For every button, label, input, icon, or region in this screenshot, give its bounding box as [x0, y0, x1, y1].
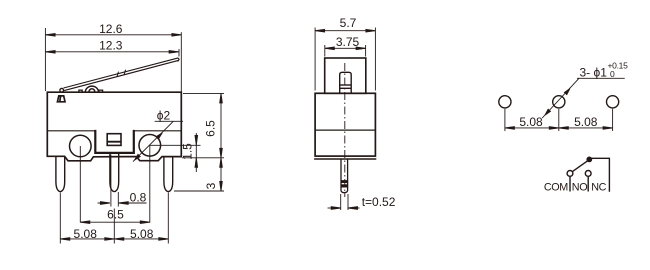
centerline right hole	[149, 145, 151, 222]
dimension 12.3	[46, 49, 179, 57]
svg-text:12.3: 12.3	[99, 39, 123, 53]
body seam line	[47, 130, 181, 132]
extension line pin bottom right	[174, 190, 224, 192]
extension line hole center right	[150, 144, 201, 146]
hole C	[607, 96, 619, 108]
anchor detail (trapezoid)	[57, 96, 65, 102]
front body	[315, 93, 375, 156]
dimension 3 vertical	[220, 158, 223, 191]
center dash-dot line	[344, 63, 346, 197]
lever hinge loop	[60, 88, 64, 92]
svg-text:t=0.52: t=0.52	[362, 195, 396, 209]
dimension t=0.52	[328, 194, 360, 210]
svg-text:5.08: 5.08	[74, 227, 98, 241]
dimension 0.8	[98, 155, 147, 207]
svg-text:12.6: 12.6	[99, 22, 123, 36]
hole B	[553, 96, 565, 108]
switch body outline (side view)	[47, 92, 181, 161]
circuit: COM terminal lead	[569, 177, 571, 192]
svg-text:5.08: 5.08	[574, 115, 598, 129]
circuit: NC wire	[592, 158, 610, 191]
svg-text:5.7: 5.7	[340, 16, 357, 30]
dimension 5.08 layout left	[505, 127, 559, 130]
svg-text:ϕ2: ϕ2	[157, 109, 171, 123]
pin 1 (left terminal)	[56, 156, 65, 191]
pin centerline extensions	[60, 193, 168, 244]
dimension 1.5 vertical	[195, 133, 198, 172]
svg-text:5.08: 5.08	[130, 227, 154, 241]
pin 3 (right terminal)	[164, 157, 173, 192]
bottom recess window	[95, 130, 134, 153]
base plate line	[314, 158, 376, 160]
hole extension lines	[505, 109, 613, 131]
upper housing	[325, 58, 366, 93]
pin crimp bands	[341, 181, 348, 187]
circuit: COM contact circle	[567, 171, 573, 177]
phi2 leader	[133, 121, 183, 161]
svg-text:1.5: 1.5	[180, 143, 194, 160]
svg-text:0: 0	[610, 69, 615, 79]
dimension 6.5 horizontal	[80, 221, 150, 224]
circuit: NO terminal lead	[587, 177, 589, 192]
svg-text:3.75: 3.75	[336, 35, 360, 49]
front seam	[315, 129, 375, 131]
extension line body bottom right	[182, 157, 224, 159]
extension line body top right	[183, 92, 224, 94]
mounting hole left (phi 2)	[70, 135, 92, 157]
svg-text:3- ϕ1: 3- ϕ1	[580, 66, 608, 80]
circuit: NO contact circle	[585, 171, 591, 177]
dimension 6.5 vertical	[220, 93, 223, 157]
svg-text:COM: COM	[544, 182, 568, 194]
dimension 12.6	[45, 28, 181, 92]
lever break mark	[117, 70, 126, 77]
top bump right	[99, 90, 103, 92]
top bump left	[79, 90, 82, 92]
circuit: NC contact dot	[586, 157, 592, 163]
svg-text:0.8: 0.8	[130, 191, 147, 205]
centerline left hole	[79, 146, 81, 223]
svg-text:NC: NC	[591, 182, 606, 194]
dimension 3.75	[325, 45, 366, 57]
dimension 5.7	[315, 28, 375, 91]
lever arm	[64, 58, 180, 91]
inner terminal slot	[107, 134, 121, 146]
svg-text:3: 3	[204, 182, 218, 189]
svg-text:6.5: 6.5	[204, 120, 218, 137]
dimension 5.08 left	[60, 238, 114, 241]
front pin	[341, 159, 348, 193]
svg-text:NO: NO	[572, 182, 587, 194]
hole A	[499, 96, 511, 108]
leader 3-phi1	[542, 78, 625, 118]
pin 2 (middle terminal)	[110, 153, 119, 192]
plunger dome	[85, 86, 98, 92]
mounting hole right (phi 2)	[139, 135, 161, 157]
dimension 5.08 right	[114, 238, 168, 241]
dimension 5.08 layout right	[559, 127, 613, 130]
circuit: lever wire	[573, 161, 588, 172]
svg-text:5.08: 5.08	[519, 115, 543, 129]
button front	[340, 72, 352, 93]
svg-text:6.5: 6.5	[107, 208, 124, 222]
